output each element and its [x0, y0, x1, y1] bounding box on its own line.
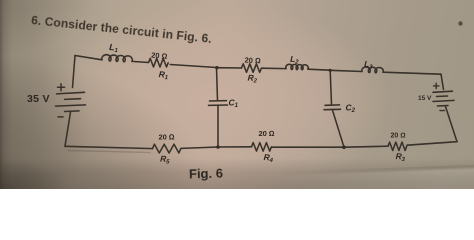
svg-text:R3: R3 — [395, 151, 406, 163]
svg-text:R1: R1 — [158, 69, 169, 81]
svg-text:35 V: 35 V — [27, 93, 50, 105]
svg-text:L1: L1 — [109, 42, 119, 54]
svg-text:20 Ω: 20 Ω — [159, 133, 175, 142]
svg-text:C1: C1 — [229, 98, 239, 110]
svg-text:15 V: 15 V — [418, 95, 432, 102]
svg-text:20 Ω: 20 Ω — [244, 56, 261, 66]
svg-text:20 Ω: 20 Ω — [391, 133, 406, 140]
svg-text:R5: R5 — [160, 154, 171, 166]
svg-text:R2: R2 — [247, 73, 258, 85]
svg-text:C2: C2 — [346, 103, 356, 115]
svg-text:20 Ω: 20 Ω — [151, 51, 168, 61]
svg-text:R4: R4 — [263, 152, 274, 164]
svg-text:20 Ω: 20 Ω — [259, 129, 275, 138]
svg-text:L3: L3 — [364, 59, 374, 71]
svg-text:L2: L2 — [290, 54, 300, 66]
